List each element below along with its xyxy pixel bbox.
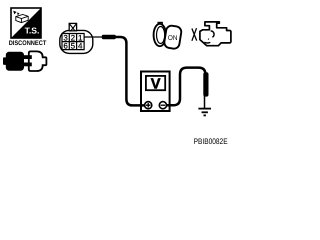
svg-text:V: V	[151, 77, 161, 93]
svg-text:6: 6	[63, 42, 68, 51]
svg-text:DISCONNECT: DISCONNECT	[9, 40, 47, 47]
pin grid	[62, 34, 84, 50]
ground lead shaft	[204, 96, 206, 108]
svg-text:5: 5	[71, 42, 76, 51]
ground symbol	[198, 109, 211, 116]
voltmeter body	[141, 72, 170, 112]
negative lead wire from voltmeter to ground probe	[163, 68, 206, 106]
engine running icon	[192, 22, 231, 46]
svg-text:ON: ON	[168, 35, 178, 42]
probe tip on ground lead	[203, 72, 208, 96]
svg-text:PBIB0082E: PBIB0082E	[194, 137, 228, 146]
voltmeter display window	[146, 76, 165, 90]
ignition switch ON icon	[154, 22, 182, 49]
minus terminal	[159, 102, 166, 109]
connector latch symbol (box with X)	[69, 23, 76, 30]
T.S. icon black triangle	[11, 8, 40, 37]
disconnect icon female half (black connector)	[3, 52, 32, 71]
svg-text:T.S.: T.S.	[25, 26, 40, 36]
positive lead wire to voltmeter	[115, 37, 146, 105]
disconnect icon male half (white plug)	[29, 51, 47, 71]
connector C body (6-pin)	[60, 30, 93, 53]
svg-text:4: 4	[78, 42, 83, 51]
test lead from pin 1	[84, 36, 103, 38]
T.S. tool icon frame	[11, 8, 41, 38]
probe tip on positive lead	[102, 35, 116, 39]
plus terminal	[145, 102, 152, 109]
connector sketch inside T.S. icon	[13, 11, 28, 23]
